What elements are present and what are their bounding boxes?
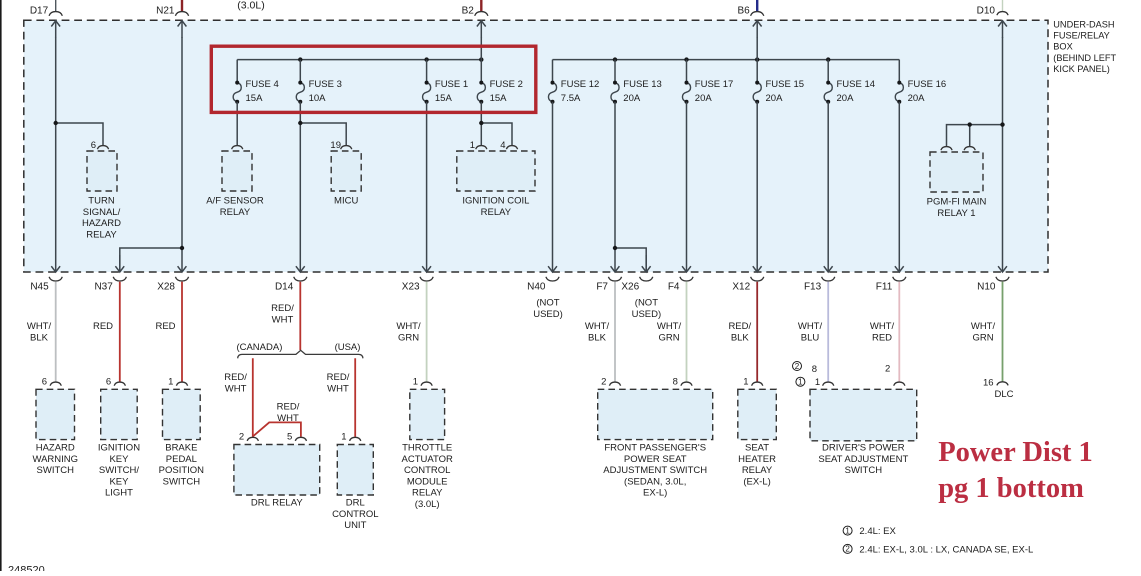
component: brake pedal position switch <box>163 389 201 439</box>
svg-text:(NOT: (NOT <box>635 298 658 309</box>
svg-text:DRL RELAY: DRL RELAY <box>251 498 303 509</box>
wire: PGM-FI relay pin A to D10 <box>947 125 1003 147</box>
wire: bus to fuse <box>898 60 900 83</box>
wire: FUSE 3 to D14 <box>299 102 301 255</box>
wire: D17 branch to turn signal relay <box>56 123 103 146</box>
svg-text:PGM-FI MAIN: PGM-FI MAIN <box>927 197 987 208</box>
svg-text:2: 2 <box>601 376 606 387</box>
svg-text:FUSE/RELAY: FUSE/RELAY <box>1053 31 1110 41</box>
svg-text:(EX-L): (EX-L) <box>743 476 770 487</box>
node: N21 branch junction <box>180 246 184 250</box>
svg-text:FUSE 16: FUSE 16 <box>908 79 947 90</box>
relay: MICU <box>331 151 361 191</box>
svg-text:2: 2 <box>845 545 850 554</box>
wire: FUSE 14 to F13 <box>827 102 829 255</box>
svg-text:FUSE 17: FUSE 17 <box>695 79 734 90</box>
svg-text:POWER SEAT: POWER SEAT <box>624 454 687 465</box>
wire WHT/BLK: F7 to front passenger seat switch pin 2 <box>614 282 616 382</box>
page left border line <box>0 0 2 571</box>
svg-text:(3.0L): (3.0L) <box>237 0 264 12</box>
wire: FUSE 4 to A/F sensor relay <box>236 102 238 146</box>
svg-text:(3.0L): (3.0L) <box>415 499 440 510</box>
svg-text:WHT: WHT <box>272 314 294 325</box>
wire: bus to fuse <box>299 60 301 83</box>
svg-text:1: 1 <box>743 376 748 387</box>
fuse F2 15A <box>477 83 485 102</box>
svg-text:SWITCH: SWITCH <box>163 476 201 487</box>
svg-text:RELAY: RELAY <box>742 465 773 476</box>
svg-text:20A: 20A <box>695 93 713 104</box>
wire: FUSE 13 branch to X26 <box>615 248 646 272</box>
svg-text:15A: 15A <box>246 93 264 104</box>
svg-text:FRONT PASSENGER'S: FRONT PASSENGER'S <box>604 443 706 454</box>
svg-text:1: 1 <box>798 378 803 387</box>
fuse F3 10A <box>296 83 304 102</box>
svg-text:2: 2 <box>239 432 244 443</box>
connector F13 (bottom) <box>827 255 829 272</box>
svg-text:X28: X28 <box>157 281 175 292</box>
svg-text:WHT/: WHT/ <box>870 321 895 332</box>
wire: D17 to N45 <box>55 37 57 255</box>
svg-text:16: 16 <box>983 377 994 388</box>
fuse F12 7.5A <box>548 83 556 102</box>
svg-text:POSITION: POSITION <box>159 465 205 476</box>
svg-text:F11: F11 <box>876 281 893 292</box>
component: ignition key switch/key light <box>101 389 138 439</box>
svg-text:20A: 20A <box>623 93 641 104</box>
svg-text:RED/: RED/ <box>277 402 300 413</box>
svg-text:CONTROL: CONTROL <box>404 465 450 476</box>
svg-text:D17: D17 <box>30 6 49 17</box>
wire RED: X28 to brake pedal position switch <box>181 282 183 382</box>
svg-text:ADJUSTMENT SWITCH: ADJUSTMENT SWITCH <box>603 465 707 476</box>
node: bus/FUSE 17 <box>684 57 688 61</box>
component: hazard warning switch <box>36 389 75 439</box>
svg-text:1: 1 <box>470 140 475 151</box>
svg-text:6: 6 <box>106 376 111 387</box>
svg-text:F13: F13 <box>804 281 822 292</box>
node: bus/B2/FUSE 2 <box>479 57 483 61</box>
svg-text:SIGNAL/: SIGNAL/ <box>83 207 121 218</box>
svg-text:2: 2 <box>885 364 890 375</box>
svg-text:CONTROL: CONTROL <box>332 509 378 520</box>
svg-text:SWITCH: SWITCH <box>37 465 75 476</box>
svg-text:UNDER-DASH: UNDER-DASH <box>1053 20 1114 30</box>
node: bus/FUSE 3 <box>298 57 302 61</box>
svg-text:10A: 10A <box>309 93 327 104</box>
svg-text:FUSE 4: FUSE 4 <box>246 79 279 90</box>
wire RED/WHT: USA branch to DRL control unit pin 1 <box>354 358 356 437</box>
svg-text:(USA): (USA) <box>335 342 361 353</box>
svg-text:8: 8 <box>673 376 678 387</box>
svg-text:RELAY: RELAY <box>220 207 251 218</box>
node: FUSE 13 branch junction <box>613 246 617 250</box>
wire RED: N37 to ignition key switch <box>119 282 121 382</box>
node: bus/FUSE 13 <box>613 57 617 61</box>
wire: FUSE 1 to X23 <box>426 102 428 255</box>
svg-text:FUSE 12: FUSE 12 <box>561 79 600 90</box>
connector N37 (bottom) <box>113 277 126 281</box>
connector X23 (bottom) <box>426 255 428 272</box>
svg-text:X26: X26 <box>621 281 639 292</box>
svg-text:B2: B2 <box>462 6 475 17</box>
svg-text:GRN: GRN <box>972 332 993 343</box>
svg-text:WHT/: WHT/ <box>657 321 682 332</box>
connector F4 (bottom) <box>686 255 688 272</box>
svg-text:WHT: WHT <box>327 383 349 394</box>
wire WHT/GRN: X23 to throttle actuator relay <box>426 282 428 382</box>
svg-text:RED: RED <box>872 332 892 343</box>
wire: B2 to bus <box>480 37 482 60</box>
connector X26 (bottom, not used) <box>640 277 653 281</box>
relay: turn signal/hazard relay <box>87 151 117 191</box>
svg-text:WHT/: WHT/ <box>396 321 421 332</box>
svg-text:20A: 20A <box>766 93 784 104</box>
svg-text:LIGHT: LIGHT <box>105 488 133 499</box>
svg-text:ACTUATOR: ACTUATOR <box>402 454 454 465</box>
svg-text:RED/: RED/ <box>271 303 294 314</box>
svg-text:BLK: BLK <box>588 332 607 343</box>
wire: FUSE 16 to F11 <box>898 102 900 255</box>
connector D14 (bottom) <box>299 255 301 272</box>
svg-text:RED/: RED/ <box>327 372 350 383</box>
note 1: 2.4L: EX <box>843 526 852 535</box>
svg-text:FUSE 13: FUSE 13 <box>623 79 662 90</box>
svg-text:2.4L: EX-L, 3.0L : LX, CANADA: 2.4L: EX-L, 3.0L : LX, CANADA SE, EX-L <box>859 545 1033 556</box>
svg-text:FUSE 1: FUSE 1 <box>435 79 468 90</box>
svg-text:RELAY: RELAY <box>86 229 117 240</box>
node: PGM-FI pin B junction <box>968 122 972 126</box>
svg-text:PEDAL: PEDAL <box>166 454 197 465</box>
svg-text:D10: D10 <box>977 6 996 17</box>
svg-text:4: 4 <box>500 140 505 151</box>
svg-text:pg 1 bottom: pg 1 bottom <box>938 473 1084 504</box>
wire WHT/RED: F11 to driver seat switch <box>898 282 900 382</box>
svg-text:5: 5 <box>287 432 292 443</box>
svg-text:RELAY: RELAY <box>412 488 443 499</box>
svg-text:BLU: BLU <box>801 332 820 343</box>
connector F11 (bottom) <box>898 255 900 272</box>
svg-text:FUSE 14: FUSE 14 <box>837 79 876 90</box>
fuse F16 20A <box>895 83 903 102</box>
svg-text:RELAY: RELAY <box>481 207 512 218</box>
svg-text:N21: N21 <box>156 6 175 17</box>
wire: bus to fuse <box>236 60 238 83</box>
svg-text:WHT/: WHT/ <box>27 321 52 332</box>
relay: A/F sensor relay <box>222 151 252 191</box>
svg-text:USED): USED) <box>533 309 563 320</box>
wire: D10 to N10 <box>1002 37 1004 255</box>
wire: bus to fuse <box>480 60 482 83</box>
component: DRL relay <box>234 445 320 496</box>
wire: FUSE 3 branch to MICU <box>300 123 346 146</box>
relay: PGM-FI main relay 1 <box>930 152 983 192</box>
svg-text:WHT: WHT <box>277 413 299 424</box>
svg-text:8: 8 <box>812 364 817 375</box>
svg-text:SWITCH: SWITCH <box>845 465 883 476</box>
node: bus/FUSE 1 <box>424 57 428 61</box>
fuse F13 20A <box>611 83 619 102</box>
svg-text:DRIVER'S POWER: DRIVER'S POWER <box>822 443 905 454</box>
wire: bus to fuse <box>756 60 758 83</box>
svg-text:DRL: DRL <box>346 498 365 509</box>
svg-text:BOX: BOX <box>1053 42 1072 52</box>
svg-text:1: 1 <box>815 377 820 388</box>
svg-text:KEY: KEY <box>109 454 129 465</box>
connector B2 (top) <box>480 0 482 12</box>
svg-text:WARNING: WARNING <box>32 454 78 465</box>
relay: ignition coil relay <box>457 151 535 191</box>
connector N21 (top) <box>181 0 183 12</box>
svg-text:RELAY 1: RELAY 1 <box>937 208 975 219</box>
fuse F1 15A <box>423 83 431 102</box>
svg-text:MODULE: MODULE <box>407 476 448 487</box>
wire: N21 to X28 <box>181 37 183 255</box>
wire: FUSE 12 to N40 <box>552 102 554 255</box>
svg-text:BLK: BLK <box>731 332 750 343</box>
svg-text:N45: N45 <box>30 281 49 292</box>
svg-text:6: 6 <box>91 140 96 151</box>
DLC connector <box>997 382 1008 386</box>
note 2: 2.4L: EX-L, 3.0L : LX, CANADA SE, EX-L <box>843 544 852 553</box>
svg-text:HAZARD: HAZARD <box>36 443 75 454</box>
fuse F17 20A <box>682 83 690 102</box>
connector B6 (top) <box>756 0 758 12</box>
connector X12 (bottom) <box>756 255 758 272</box>
svg-text:GRN: GRN <box>398 332 419 343</box>
svg-text:FUSE 2: FUSE 2 <box>490 79 523 90</box>
svg-text:F7: F7 <box>596 281 608 292</box>
pin labels for driver's power seat adjustment switch <box>793 362 802 371</box>
node: D10/PGM-FI junction <box>1000 122 1004 126</box>
svg-text:F4: F4 <box>668 281 680 292</box>
connector D10 (top) <box>1002 0 1004 12</box>
svg-text:RED/: RED/ <box>224 372 247 383</box>
svg-text:(CANADA): (CANADA) <box>236 342 282 353</box>
svg-text:KICK PANEL): KICK PANEL) <box>1053 64 1110 74</box>
node: bus/FUSE 14 <box>826 57 830 61</box>
component: DRL control unit <box>337 445 373 496</box>
svg-text:6: 6 <box>42 376 47 387</box>
wire WHT/GRN: F4 to front passenger seat switch pin 8 <box>686 282 688 382</box>
svg-text:SEAT: SEAT <box>745 443 769 454</box>
wire: PGM-FI relay pin B drop <box>969 125 971 147</box>
svg-text:SEAT ADJUSTMENT: SEAT ADJUSTMENT <box>818 454 908 465</box>
wire: FUSE 2 to ignition coil relay pin 1 <box>480 102 482 146</box>
wire: FUSE 13 to F7 <box>614 102 616 255</box>
wire: FUSE 17 to F4 <box>686 102 688 255</box>
svg-text:248520: 248520 <box>8 565 45 572</box>
highlight rectangle around fuses 4,3,1,2 <box>211 46 536 112</box>
wire: bus to fuse <box>614 60 616 83</box>
wire RED/WHT: D14 to Canada/USA brace <box>299 282 301 350</box>
svg-text:HAZARD: HAZARD <box>82 218 121 229</box>
svg-text:RED: RED <box>93 321 113 332</box>
under-dash fuse/relay box <box>24 20 1048 272</box>
wire: fuse bus right (B6 feed) <box>553 59 900 61</box>
wire WHT/BLK: N45 to hazard warning switch <box>55 282 57 382</box>
svg-text:X23: X23 <box>402 281 420 292</box>
wire RED/BLK: X12 to seat heater relay <box>756 282 758 382</box>
connector N10 (bottom) <box>1002 255 1004 272</box>
svg-text:IGNITION: IGNITION <box>98 443 140 454</box>
fuse F14 20A <box>824 83 832 102</box>
wire: bus to fuse <box>686 60 688 83</box>
connector D17 (top) <box>55 0 57 12</box>
svg-text:(SEDAN, 3.0L,: (SEDAN, 3.0L, <box>624 476 686 487</box>
svg-text:Power Dist 1: Power Dist 1 <box>938 437 1093 468</box>
wire: FUSE 2 branch to ignition coil relay pin 4 <box>481 123 512 146</box>
svg-text:RED: RED <box>155 321 175 332</box>
svg-text:(BEHIND LEFT: (BEHIND LEFT <box>1053 53 1116 63</box>
svg-text:15A: 15A <box>490 93 508 104</box>
svg-text:19: 19 <box>330 140 341 151</box>
svg-text:SWITCH/: SWITCH/ <box>99 465 139 476</box>
node: D17 branch junction <box>54 121 58 125</box>
svg-text:1: 1 <box>168 376 173 387</box>
svg-text:1: 1 <box>845 526 850 535</box>
svg-text:FUSE 15: FUSE 15 <box>766 79 805 90</box>
svg-text:TURN: TURN <box>88 196 115 207</box>
wire RED/WHT: DRL relay pin 2 to pin 5 jumper <box>253 422 301 437</box>
svg-text:BRAKE: BRAKE <box>165 443 197 454</box>
svg-text:USED): USED) <box>632 309 662 320</box>
wire: bus to fuse <box>552 60 554 83</box>
svg-text:15A: 15A <box>435 93 453 104</box>
svg-text:DLC: DLC <box>994 389 1013 400</box>
node: FUSE 3 branch junction <box>298 121 302 125</box>
connector N40 (bottom, not used) <box>552 255 554 272</box>
component: throttle actuator control module relay <box>410 389 445 439</box>
svg-text:EX-L): EX-L) <box>643 488 667 499</box>
svg-text:GRN: GRN <box>658 332 679 343</box>
connector F7 (bottom) <box>614 255 616 272</box>
svg-text:FUSE 3: FUSE 3 <box>309 79 342 90</box>
svg-text:7.5A: 7.5A <box>561 93 581 104</box>
svg-text:1: 1 <box>413 376 418 387</box>
wire WHT/BLU: F13 to driver seat switch <box>827 282 829 382</box>
connector X28 (bottom) <box>181 255 183 272</box>
wire: bus to fuse <box>827 60 829 83</box>
svg-text:WHT/: WHT/ <box>798 321 823 332</box>
wire: N21 branch to N37 <box>120 248 182 272</box>
svg-text:WHT/: WHT/ <box>971 321 996 332</box>
wire: FUSE 15 to X12 <box>756 102 758 255</box>
svg-text:X12: X12 <box>732 281 750 292</box>
brace: (CANADA)/(USA) option split <box>238 350 363 358</box>
svg-text:N10: N10 <box>977 281 996 292</box>
svg-text:2: 2 <box>795 362 800 371</box>
fuse F15 20A <box>753 83 761 102</box>
svg-text:RED/: RED/ <box>728 321 751 332</box>
wire: fuse bus left (B2 feed) <box>237 59 481 61</box>
svg-text:N40: N40 <box>527 281 546 292</box>
wire: B6 to bus <box>756 37 758 60</box>
svg-text:UNIT: UNIT <box>344 520 366 531</box>
svg-text:1: 1 <box>341 432 346 443</box>
svg-text:HEATER: HEATER <box>738 454 776 465</box>
svg-text:2.4L: EX: 2.4L: EX <box>859 526 896 537</box>
svg-text:20A: 20A <box>908 93 926 104</box>
component: front passenger's power seat adjustment switch <box>598 389 713 439</box>
node: bus/B6/FUSE 15 <box>755 57 759 61</box>
svg-text:WHT/: WHT/ <box>585 321 610 332</box>
svg-text:(NOT: (NOT <box>536 298 559 309</box>
wire RED/WHT: Canada branch to DRL relay pin 2 <box>252 358 254 437</box>
fuse F4 15A <box>233 83 241 102</box>
svg-text:B6: B6 <box>737 6 750 17</box>
component: seat heater relay <box>738 389 777 439</box>
svg-text:THROTTLE: THROTTLE <box>402 443 452 454</box>
svg-text:A/F SENSOR: A/F SENSOR <box>206 196 264 207</box>
connector N45 (bottom) <box>55 255 57 272</box>
wire: bus to fuse <box>426 60 428 83</box>
svg-text:N37: N37 <box>94 281 113 292</box>
svg-text:20A: 20A <box>837 93 855 104</box>
svg-text:BLK: BLK <box>30 332 49 343</box>
svg-text:KEY: KEY <box>109 476 129 487</box>
component: driver's power seat adjustment switch <box>810 389 917 441</box>
wire WHT/GRN: N10 to DLC <box>1002 282 1004 382</box>
svg-text:D14: D14 <box>275 281 294 292</box>
svg-text:IGNITION COIL: IGNITION COIL <box>462 196 529 207</box>
svg-text:MICU: MICU <box>334 196 358 207</box>
svg-text:WHT: WHT <box>225 383 247 394</box>
node: FUSE 2 branch junction <box>479 121 483 125</box>
